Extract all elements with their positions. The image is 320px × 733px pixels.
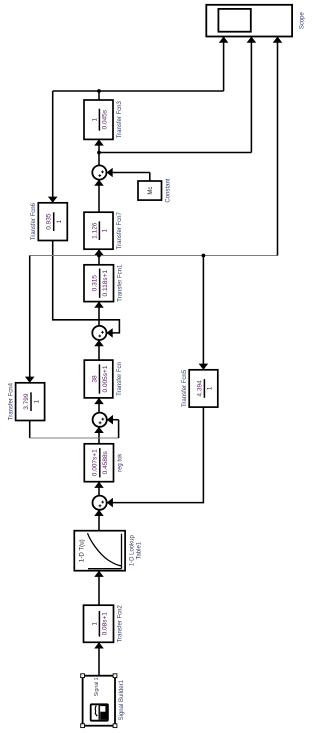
source Signal Builder1 <box>81 674 126 728</box>
wire TransferFcn3 output stub <box>98 91 100 100</box>
wire trunk to Scope input 3 <box>273 37 283 256</box>
svg-text:Scope: Scope <box>300 11 306 29</box>
svg-text:1.126: 1.126 <box>91 222 98 239</box>
wire TransferFcn6 output to sum S2 <box>53 241 120 338</box>
svg-text:Transfer Fcn1: Transfer Fcn1 <box>118 264 124 302</box>
svg-text:1: 1 <box>33 399 40 403</box>
wire TransferFcn7 to sum S1 <box>94 180 104 213</box>
wire TransferFcn1 output trunk (vertical) <box>30 255 278 257</box>
svg-text:1-D Lookup: 1-D Lookup <box>129 535 135 567</box>
constant Mc <box>138 178 172 202</box>
svg-text:0.935: 0.935 <box>46 213 53 230</box>
svg-text:1: 1 <box>91 118 98 122</box>
wire sum S4 to regtok <box>94 482 104 496</box>
wire TransferFcn1 to TransferFcn7 <box>94 249 104 265</box>
wire TransferFcn4 output to sum S3 <box>30 415 119 438</box>
wire SignalBuilder1 to TransferFcn2 <box>94 642 104 675</box>
1-D Lookup Table1 <box>74 531 142 571</box>
svg-text:Transfer Fcn5: Transfer Fcn5 <box>182 369 188 407</box>
svg-text:0.315: 0.315 <box>92 275 99 292</box>
junction TransferFcn3 output <box>97 89 101 93</box>
wire regtok to sum S3 <box>94 427 104 444</box>
svg-text:1: 1 <box>56 219 63 223</box>
wire TransferFcn to sum S2 <box>94 340 104 360</box>
svg-text:0.005s+1: 0.005s+1 <box>102 365 109 392</box>
wire TransferFcn5 output to sum S4 <box>107 407 204 507</box>
transfer function Transfer Fcn1 <box>84 264 124 302</box>
svg-text:Signal Builder1: Signal Builder1 <box>119 679 125 720</box>
transfer function Transfer Fcn6 (flipped) <box>31 202 67 240</box>
sum S4 <box>93 496 107 510</box>
svg-text:Transfer Fcn3: Transfer Fcn3 <box>117 100 123 138</box>
svg-text:Constant: Constant <box>166 178 172 202</box>
wire sum S1 output branch to Scope input 2 <box>99 37 256 153</box>
transfer function Transfer Fcn5 (flipped) <box>182 369 218 407</box>
svg-text:Transfer Fcn7: Transfer Fcn7 <box>117 211 123 249</box>
wire Constant Mc to sum S1 <box>107 168 150 181</box>
sum S3 <box>93 413 107 427</box>
svg-text:4.394: 4.394 <box>196 380 203 397</box>
svg-text:0.08s+1: 0.08s+1 <box>102 612 109 636</box>
svg-text:0.4588s: 0.4588s <box>102 450 109 474</box>
svg-text:Transfer Fcn2: Transfer Fcn2 <box>118 605 124 643</box>
junction trunk at TransferFcn5 branch <box>202 254 206 258</box>
transfer function Transfer Fcn4 (flipped) <box>8 382 44 420</box>
junction sum S1 output <box>97 151 101 155</box>
svg-text:38: 38 <box>91 375 98 383</box>
svg-text:Transfer Fcn4: Transfer Fcn4 <box>8 382 14 420</box>
transfer function Transfer Fcn <box>84 360 123 398</box>
svg-text:reg tok: reg tok <box>118 453 124 472</box>
sum S1 <box>92 165 106 179</box>
scope Scope <box>206 5 305 37</box>
wire trunk to TransferFcn4 feedback <box>25 256 35 383</box>
svg-text:Mc: Mc <box>148 187 154 195</box>
wire trunk to TransferFcn5 feedback <box>199 256 209 370</box>
transfer function reg tok <box>84 444 123 482</box>
wire sum S2 to TransferFcn1 <box>94 302 104 326</box>
svg-text:1: 1 <box>102 229 109 233</box>
svg-text:Table1: Table1 <box>136 541 142 559</box>
transfer function Transfer Fcn2 <box>84 605 124 643</box>
svg-text:1: 1 <box>207 386 214 390</box>
wire sum S1 to TransferFcn3 <box>94 139 104 165</box>
wire LookupTable to sum S4 <box>94 510 104 531</box>
svg-text:0.118s+1: 0.118s+1 <box>102 270 109 297</box>
svg-text:1: 1 <box>91 622 98 626</box>
svg-text:Transfer Fcn6: Transfer Fcn6 <box>31 202 37 240</box>
svg-text:Transfer Fcn: Transfer Fcn <box>117 362 123 396</box>
svg-text:0.045s: 0.045s <box>102 109 109 129</box>
wire TransferFcn3 output to TransferFcn6 feedback and Scope input 1 <box>48 37 229 203</box>
svg-text:0.007s+1: 0.007s+1 <box>92 449 99 476</box>
svg-text:1-D T(u): 1-D T(u) <box>79 539 86 562</box>
wire TransferFcn2 to LookupTable <box>94 571 104 606</box>
transfer function Transfer Fcn7 <box>84 211 123 249</box>
svg-text:3.799: 3.799 <box>23 393 30 410</box>
sum S2 <box>92 326 106 340</box>
transfer function Transfer Fcn3 <box>84 100 123 139</box>
wire sum S3 to TransferFcn <box>94 398 104 413</box>
junction trunk at chain <box>97 254 101 258</box>
svg-text:Signal 1: Signal 1 <box>94 677 100 696</box>
